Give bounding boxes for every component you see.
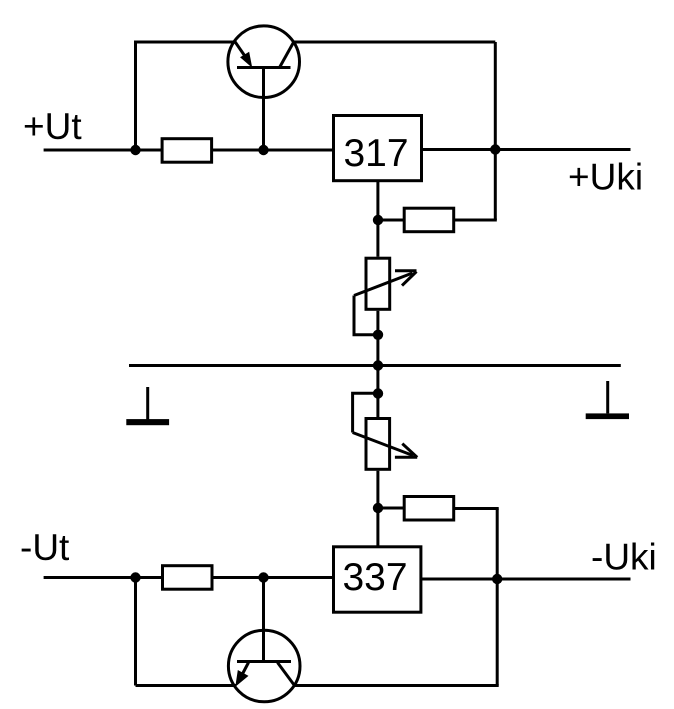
wire node D to R2 [378,219,404,222]
wire R2 to right vertical [455,219,497,222]
wire P1 bottom vertical [376,311,379,366]
wire P2 top vertical [376,366,379,418]
resistor R4 [163,566,213,590]
wire +Uki rail [423,148,631,151]
wire ground rail [129,364,621,367]
wire R3 to right vertical [455,507,499,510]
svg-text:-Ut: -Ut [20,527,70,568]
op-amp U2 regulator 337 box [334,547,421,612]
node H junction dot [373,503,383,513]
ground left [126,387,169,425]
wire right vertical bottom [496,509,499,686]
wire top loop right horizontal [293,41,496,44]
wire right vertical top [494,42,497,220]
potentiometer P1 [354,258,417,309]
resistor R2 [404,208,454,232]
ground right [586,381,629,419]
node D junction dot [373,215,383,225]
potentiometer P2 [353,419,418,470]
wire P1 wiper bend [354,296,378,335]
resistor R1 [162,139,212,163]
wire bottom loop right horizontal [293,684,499,687]
node F ground rail junction dot [373,360,383,370]
node J base junction dot [258,572,268,582]
wire bottom loop left horizontal [136,684,237,687]
svg-text:337: 337 [342,556,407,599]
node G wiper junction dot [373,388,383,398]
svg-text:+Uki: +Uki [568,157,643,198]
node A junction dot [130,145,140,155]
wire +Ut rail [44,149,333,152]
transistor Q2 [228,578,300,702]
op-amp U1 regulator 317 box [334,116,422,181]
wire node H to R3 [378,507,404,510]
wire bottom loop left vertical [134,578,137,686]
wire P2 wiper bend [353,393,378,432]
transistor Q1 [228,26,300,150]
wire top loop left horizontal [136,41,237,44]
node I junction dot [130,572,140,582]
node K output junction dot [492,574,502,584]
node E wiper junction dot [373,330,383,340]
wire -Ut rail [44,576,333,579]
svg-text:-Uki: -Uki [591,537,657,578]
wire top loop left vertical [134,41,137,151]
node C output junction dot [490,144,500,154]
wire -Uki rail [422,578,631,581]
resistor R3 [404,497,454,521]
node B base junction dot [258,145,268,155]
wire P2 bottom vertical [376,471,379,546]
svg-text:317: 317 [343,132,408,175]
wire 317 adj vertical [376,182,379,257]
svg-text:+Ut: +Ut [23,106,82,147]
